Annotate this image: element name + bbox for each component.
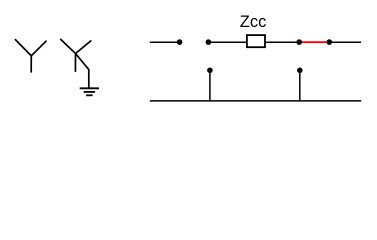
wire: left stub up from bottom bus: [209, 70, 211, 101]
wire: red segment: [299, 41, 329, 43]
wire: right stub up from bottom bus: [299, 70, 301, 101]
svg-text:Zcc: Zcc: [240, 13, 267, 31]
node: dot on left stub: [207, 68, 213, 74]
node: dot at end of top-left segment: [177, 39, 183, 45]
node: dot right of red wire: [327, 39, 333, 45]
node: dot at start of Zcc branch: [206, 39, 212, 45]
winding symbol Y2 (grounded wye): [61, 39, 91, 88]
wire: top-right segment: [329, 41, 361, 43]
wire: bottom bus: [150, 100, 361, 102]
ground: [80, 88, 99, 95]
wire: from Zcc box to node: [265, 41, 299, 43]
impedance Zcc (box): [247, 35, 265, 47]
wire: from node to Zcc box: [208, 41, 247, 43]
node: dot on right stub: [297, 68, 303, 74]
winding symbol Y1 (wye): [15, 40, 46, 72]
node: dot left of red wire: [296, 39, 302, 45]
wire: top-left segment: [150, 41, 180, 43]
